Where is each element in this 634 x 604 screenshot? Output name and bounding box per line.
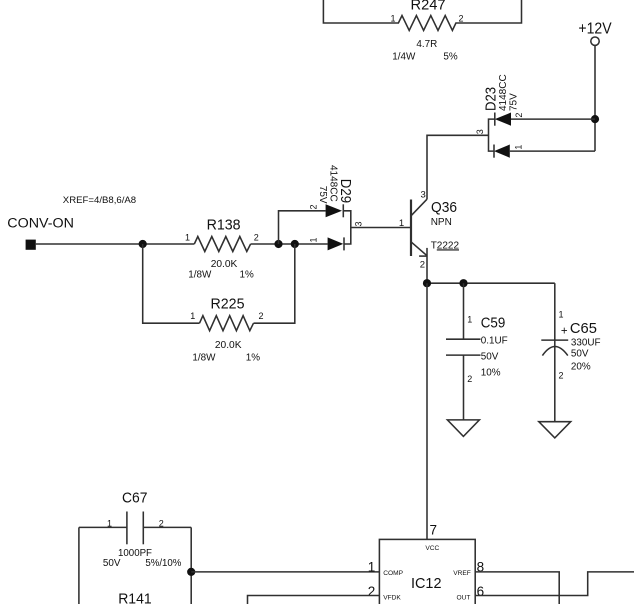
junction CONV-ON branch (139, 240, 147, 248)
svg-text:2: 2 (309, 204, 319, 209)
svg-text:3: 3 (421, 190, 426, 201)
svg-text:1: 1 (390, 14, 395, 24)
svg-text:10%: 10% (481, 368, 501, 379)
wire R138 pin2 to D29 pin1 (251, 243, 328, 245)
wire junction to IC12 COMP pin1 (191, 571, 379, 573)
svg-text:1: 1 (309, 237, 319, 242)
svg-text:20.0K: 20.0K (215, 340, 242, 351)
svg-text:4148CC: 4148CC (498, 74, 509, 111)
svg-text:+12V: +12V (578, 21, 611, 38)
junction C59 branch (459, 279, 467, 287)
svg-text:50V: 50V (481, 352, 499, 363)
diode D29 dual common-cathode (309, 165, 364, 250)
svg-text:2: 2 (420, 259, 425, 270)
svg-text:IC12: IC12 (411, 575, 442, 592)
wire CONV-ON to R138 (36, 243, 195, 245)
wire IC12 VREF pin8 (475, 572, 559, 604)
svg-text:2: 2 (559, 371, 564, 381)
svg-text:1: 1 (368, 560, 376, 575)
svg-text:50V: 50V (571, 349, 589, 360)
svg-text:4148CC: 4148CC (328, 165, 339, 202)
svg-text:Q36: Q36 (431, 199, 457, 216)
svg-text:4.7R: 4.7R (416, 39, 437, 50)
svg-text:330UF: 330UF (571, 337, 601, 348)
svg-text:2: 2 (254, 233, 259, 243)
diode D23 dual common-cathode (475, 74, 524, 157)
resistor R138 (185, 217, 259, 281)
svg-text:2: 2 (459, 14, 464, 24)
wire D23 pin2 to +12V rail (511, 118, 595, 120)
wire +12V rail (594, 45, 596, 151)
svg-text:1: 1 (467, 315, 472, 325)
svg-text:5%: 5% (443, 52, 457, 63)
svg-text:1: 1 (514, 145, 524, 150)
svg-text:1: 1 (190, 311, 195, 321)
svg-text:20.0K: 20.0K (211, 259, 238, 270)
svg-text:1/8W: 1/8W (192, 352, 216, 363)
svg-text:75V: 75V (317, 186, 328, 204)
svg-text:OUT: OUT (456, 595, 470, 602)
svg-text:1%: 1% (246, 352, 260, 363)
svg-text:1%: 1% (240, 270, 254, 281)
wire C67 pin1 down to R141 (78, 527, 80, 604)
wire D23 pin1 to +12V rail (510, 150, 595, 152)
svg-text:R138: R138 (207, 217, 241, 234)
svg-text:5%/10%: 5%/10% (145, 558, 181, 569)
junction to D29 pin2 branch (274, 240, 282, 248)
svg-text:2: 2 (159, 519, 164, 529)
svg-text:20%: 20% (571, 362, 591, 373)
junction C67 pin2 to IC12 COMP (187, 568, 195, 576)
node junction on +12V rail (591, 115, 599, 123)
svg-text:1/4W: 1/4W (392, 52, 416, 63)
svg-text:1/8W: 1/8W (188, 270, 212, 281)
svg-text:NPN: NPN (431, 217, 452, 228)
svg-text:1: 1 (559, 310, 564, 320)
svg-text:3: 3 (475, 129, 485, 134)
svg-text:2: 2 (467, 374, 472, 384)
svg-text:VFDK: VFDK (383, 595, 401, 602)
wire IC12 VFDK pin2 (248, 596, 380, 604)
wire emitter node row (427, 282, 555, 284)
wire D23 pin3 to Q36 collector (427, 135, 489, 199)
junction to R225 branch (291, 240, 299, 248)
svg-text:R225: R225 (211, 296, 245, 313)
svg-text:6: 6 (477, 584, 485, 599)
wire branch down to R225 (143, 244, 200, 323)
wire D29 pin3 to Q36 base (351, 227, 411, 229)
svg-text:75V: 75V (509, 93, 520, 111)
svg-text:VREF: VREF (453, 570, 471, 577)
node CONV-ON (7, 195, 136, 250)
svg-text:R247: R247 (411, 0, 446, 14)
svg-text:3: 3 (354, 221, 364, 226)
op-amp/controller IC12 (368, 523, 484, 604)
svg-text:CONV-ON: CONV-ON (7, 216, 74, 232)
svg-text:1: 1 (185, 233, 190, 243)
wire up-branch to D29 pin2 (279, 211, 326, 244)
svg-text:1: 1 (107, 519, 112, 529)
svg-text:VCC: VCC (425, 545, 439, 552)
svg-text:R141: R141 (118, 591, 152, 604)
svg-text:7: 7 (430, 523, 438, 538)
svg-text:C59: C59 (481, 315, 506, 332)
power +12V terminal (578, 21, 611, 46)
transistor Q36 (399, 190, 460, 271)
junction emitter node (423, 279, 431, 287)
wire node to IC12 VCC (426, 283, 428, 539)
svg-text:2: 2 (514, 113, 524, 118)
capacitor C67 (79, 490, 191, 569)
resistor R247 (323, 0, 521, 63)
svg-text:0.1UF: 0.1UF (481, 336, 508, 347)
ground symbol below C59 (447, 420, 479, 437)
wire C67 pin2 down to R141 (190, 527, 192, 604)
svg-text:XREF=4/B8,6/A8: XREF=4/B8,6/A8 (63, 195, 136, 206)
wire R225 pin2 up to junction (254, 244, 295, 323)
svg-text:50V: 50V (103, 558, 121, 569)
svg-text:C67: C67 (122, 490, 148, 507)
ground symbol below C65 (539, 422, 571, 438)
svg-text:C65: C65 (570, 320, 597, 337)
svg-text:1: 1 (399, 218, 404, 229)
resistor R225 (190, 296, 263, 364)
wire Q36 emitter down (426, 257, 428, 283)
svg-text:2: 2 (368, 584, 376, 599)
svg-text:+: + (561, 325, 568, 337)
svg-text:2: 2 (258, 311, 263, 321)
wire IC12 OUT pin6 (475, 572, 634, 596)
capacitor C65 polarized (541, 283, 600, 422)
svg-text:COMP: COMP (383, 570, 403, 577)
capacitor C59 (446, 283, 508, 420)
